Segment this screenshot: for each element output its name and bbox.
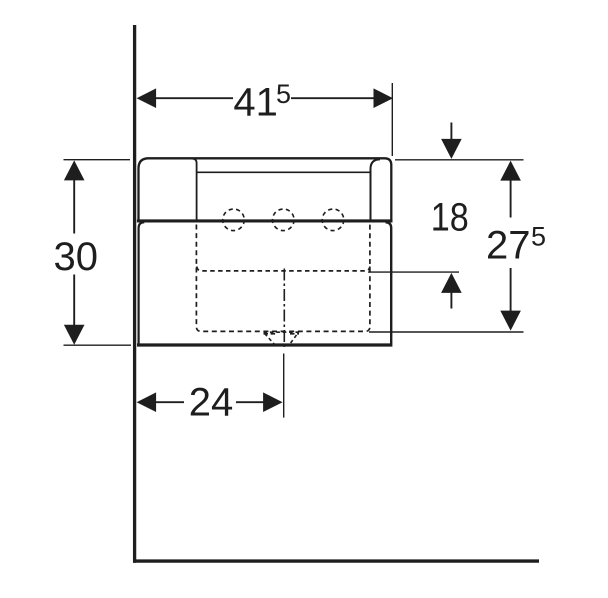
- tap hole circle middle: [273, 209, 295, 231]
- svg-text:18: 18: [431, 195, 469, 239]
- dimension 30: extension line bottom: [64, 344, 132, 346]
- wall line: [133, 25, 136, 563]
- dimension 24: dimension line: [156, 401, 184, 403]
- lower front section left edge: [139, 222, 145, 344]
- centerline extension below unit: [283, 354, 285, 418]
- dimension 18: bottom arrowhead (points up): [441, 273, 462, 293]
- dimension 27.5: bottom arrowhead (points down): [500, 311, 521, 331]
- dimension 30: extension line top: [64, 159, 131, 161]
- tap hole circle right: [322, 209, 344, 231]
- lower front section bottom edge: [137, 343, 392, 346]
- svg-text:41: 41: [233, 80, 278, 124]
- drain trap symbol (dashed trapezoid): [264, 332, 299, 345]
- dimension 41.5: dimension line: [156, 97, 233, 99]
- dimension 18: bottom arrow tail: [450, 293, 452, 309]
- hidden bowl outline (dashed): [196, 225, 370, 332]
- dimension 41.5: left arrowhead: [137, 88, 157, 108]
- basin bowl right profile: [371, 159, 381, 222]
- svg-text:27: 27: [486, 223, 531, 267]
- drain centerline (dash-dot): [283, 269, 285, 348]
- dimension 27.5: top extension line: [395, 159, 524, 161]
- dimension 41.5: extension line right: [391, 83, 393, 156]
- dimension 27.5: top arrowhead (points up): [500, 161, 521, 181]
- tap hole circle left: [223, 209, 245, 231]
- svg-text:5: 5: [531, 221, 546, 251]
- floor line: [133, 559, 539, 562]
- washbasin outer outline (upper section): [139, 158, 392, 222]
- dimension 30: dimension line: [73, 179, 75, 234]
- dimension 24: right arrowhead: [263, 392, 283, 412]
- dimension 27.5: dimension line: [510, 180, 512, 218]
- svg-text:5: 5: [276, 79, 291, 109]
- dimension 41.5: right arrowhead: [374, 88, 394, 108]
- basin inner rim line: [198, 171, 371, 173]
- svg-text:30: 30: [54, 235, 99, 279]
- dimension 30: top arrowhead: [64, 160, 85, 180]
- dimension 18: extension line: [368, 271, 459, 273]
- drain trap top edge dashes: [264, 333, 278, 335]
- lower front section right edge: [386, 222, 392, 344]
- dimension 24: left arrowhead: [137, 392, 157, 412]
- mid horizontal line (basin bottom / apron top): [137, 219, 393, 222]
- dimension 18: top arrow tail: [450, 123, 452, 140]
- hidden bowl inner bottom line (dashed): [197, 267, 370, 271]
- dimension 30: bottom arrowhead: [64, 325, 85, 345]
- dimension 18: top arrowhead (points down): [441, 139, 462, 159]
- svg-text:24: 24: [189, 380, 234, 424]
- basin deck inner vertical: [192, 159, 197, 222]
- dimension 27.5: bottom extension line: [369, 331, 524, 333]
